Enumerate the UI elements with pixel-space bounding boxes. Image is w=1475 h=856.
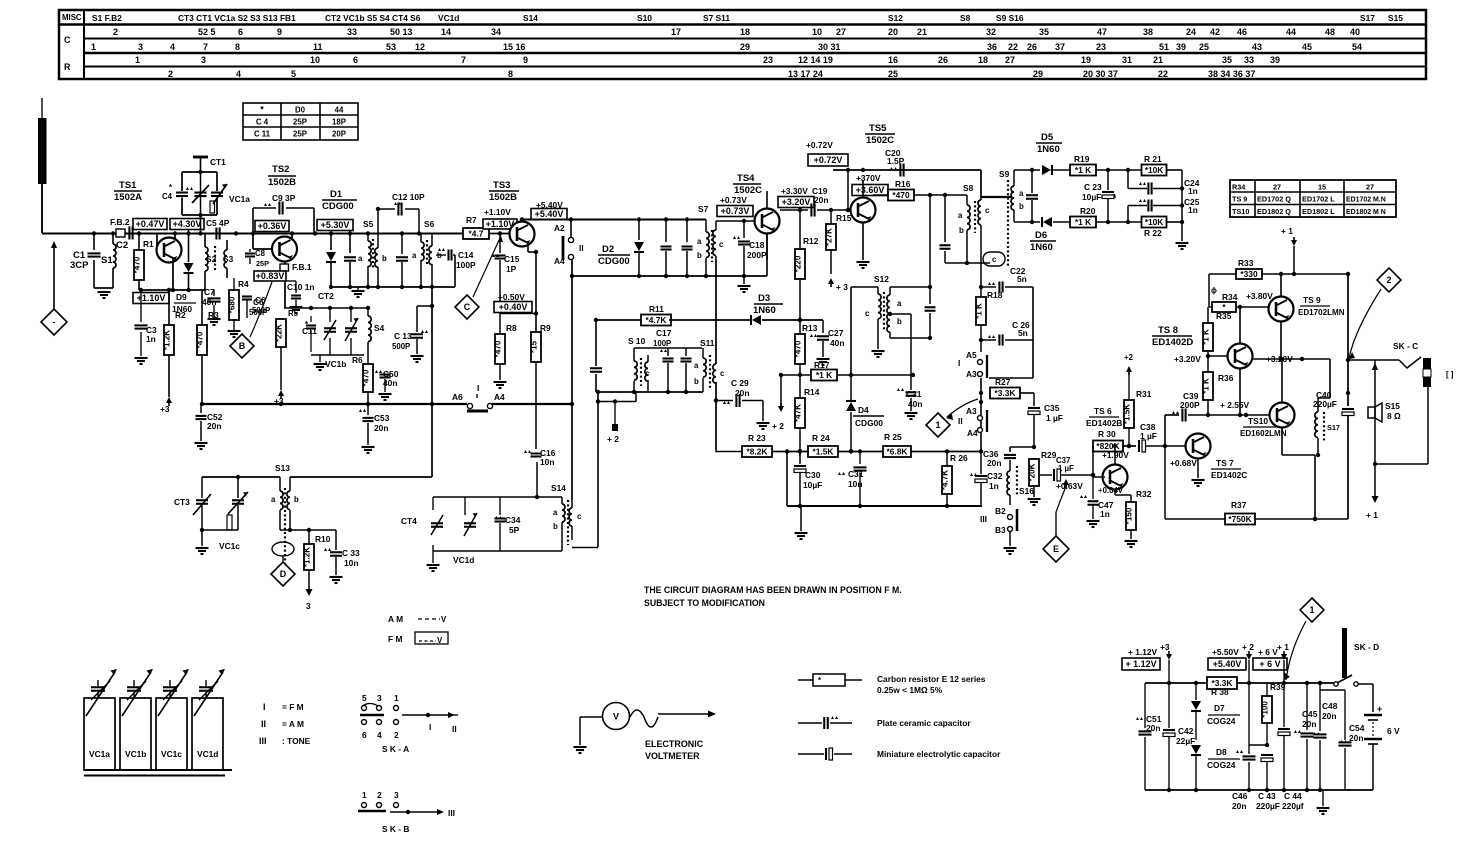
wire S13 top xyxy=(202,475,280,479)
svg-text:II: II xyxy=(958,416,963,426)
svg-text:+0.83V: +0.83V xyxy=(256,271,285,281)
capacitor C29 xyxy=(714,378,770,429)
voltage +3.20V left xyxy=(1174,354,1201,364)
rail TS5 top xyxy=(833,164,981,198)
svg-text:TS3: TS3 xyxy=(493,180,510,191)
svg-text:R31: R31 xyxy=(1136,389,1152,399)
svg-text:21: 21 xyxy=(1153,55,1163,65)
svg-text:+3: +3 xyxy=(274,396,284,406)
wire S7 secondary xyxy=(716,219,762,223)
svg-text:*1 K: *1 K xyxy=(1202,329,1211,345)
svg-text:20n: 20n xyxy=(987,458,1001,468)
capacitor C36 xyxy=(983,447,1034,468)
svg-text:C 23: C 23 xyxy=(1084,182,1102,192)
wire rail TS3 xyxy=(520,217,524,221)
svg-text:47: 47 xyxy=(1097,27,1107,37)
svg-text:35: 35 xyxy=(1039,27,1049,37)
svg-text:23: 23 xyxy=(1096,42,1106,52)
wire branch C48 xyxy=(1320,689,1344,691)
svg-text:R 24: R 24 xyxy=(812,433,830,443)
svg-text:TS10: TS10 xyxy=(1232,207,1249,216)
svg-text:A4: A4 xyxy=(494,392,505,402)
wire TS1 emitter bus xyxy=(139,288,205,292)
svg-text:= A M: = A M xyxy=(282,719,304,729)
switch SK-D xyxy=(1334,628,1379,686)
svg-text:b: b xyxy=(959,226,964,235)
svg-text:+0.04V: +0.04V xyxy=(1098,486,1124,495)
svg-text:R 30: R 30 xyxy=(1098,429,1116,439)
switch SK-C xyxy=(1348,341,1421,368)
diamond D xyxy=(271,562,295,586)
transformer S6 xyxy=(412,219,442,287)
svg-text:C10 1n: C10 1n xyxy=(287,282,314,292)
svg-text:12: 12 xyxy=(415,42,425,52)
voltage +6V xyxy=(1253,647,1287,670)
svg-text:S9: S9 xyxy=(999,169,1010,179)
svg-text:8 Ω: 8 Ω xyxy=(1387,411,1401,421)
svg-text:21: 21 xyxy=(917,27,927,37)
antenna xyxy=(38,98,47,233)
svg-text:+2: +2 xyxy=(1124,353,1134,362)
svg-text:*220: *220 xyxy=(794,255,803,272)
legend switch positions xyxy=(259,702,311,746)
diode D6 xyxy=(1014,217,1070,227)
svg-text:II: II xyxy=(452,724,457,734)
svg-text:S8: S8 xyxy=(960,13,971,23)
wire TS6 R32 xyxy=(1127,444,1131,448)
voltage +2.55V xyxy=(1220,400,1250,417)
svg-text:*750K: *750K xyxy=(1228,514,1251,524)
svg-text:II: II xyxy=(261,719,266,729)
svg-text:+ 1: + 1 xyxy=(1277,642,1289,652)
svg-text:20n: 20n xyxy=(374,423,388,433)
svg-text:a: a xyxy=(412,251,417,260)
transistor TS4 xyxy=(755,191,780,260)
capacitor C8 xyxy=(245,249,269,268)
resistor R21 xyxy=(1142,154,1183,186)
resistor R11 xyxy=(594,304,671,326)
svg-text:*3.3K: *3.3K xyxy=(995,388,1016,398)
svg-text:I: I xyxy=(958,358,960,368)
svg-text:*1 K: *1 K xyxy=(1202,378,1211,394)
svg-text:7: 7 xyxy=(461,55,466,65)
svg-text:D6: D6 xyxy=(1035,230,1047,241)
svg-text:+ 6 V: + 6 V xyxy=(1259,659,1280,669)
diamond B xyxy=(230,282,272,358)
svg-text:*27K: *27K xyxy=(825,228,834,246)
capacitor C54 xyxy=(1336,683,1365,743)
variable capacitor VC1a xyxy=(210,184,250,213)
svg-text:A M: A M xyxy=(388,614,403,624)
wire A4 down xyxy=(570,260,574,500)
svg-text:25P: 25P xyxy=(293,130,307,139)
svg-text:*470: *470 xyxy=(196,331,205,348)
wire TS7 base up xyxy=(1165,415,1179,446)
svg-text:+3: +3 xyxy=(160,404,170,414)
svg-text:VC1c: VC1c xyxy=(161,749,182,759)
svg-text:33: 33 xyxy=(347,27,357,37)
wire S11 c down xyxy=(716,259,745,452)
table text xyxy=(62,13,1403,79)
svg-text:D2: D2 xyxy=(602,244,614,255)
svg-text:I: I xyxy=(477,383,479,393)
svg-text:VC1d: VC1d xyxy=(438,13,459,23)
resistor R15b xyxy=(0,0,1,1)
svg-text:R16: R16 xyxy=(895,179,911,189)
svg-text:+0.36V: +0.36V xyxy=(258,221,287,231)
svg-text:9: 9 xyxy=(523,55,528,65)
svg-text:TS10: TS10 xyxy=(1248,416,1268,426)
capacitor C27 xyxy=(810,328,844,365)
resistor R38 xyxy=(1207,677,1237,697)
svg-text:C 29: C 29 xyxy=(731,378,749,388)
svg-text:+3: +3 xyxy=(1160,642,1170,652)
switch A2 A4 xyxy=(554,220,584,267)
svg-text:A4: A4 xyxy=(554,256,565,266)
svg-text:CDG00: CDG00 xyxy=(322,201,354,212)
point +1 power xyxy=(1277,642,1289,683)
svg-text:A4: A4 xyxy=(967,428,978,438)
svg-text:c: c xyxy=(865,309,870,318)
svg-text:+3.80V: +3.80V xyxy=(1246,291,1273,301)
svg-text:+370V: +370V xyxy=(856,173,881,183)
variable cap VC1d xyxy=(453,497,477,565)
capacitor C20 xyxy=(885,148,905,170)
svg-text:29: 29 xyxy=(740,42,750,52)
svg-text:10µF: 10µF xyxy=(803,480,822,490)
svg-text:I: I xyxy=(429,722,431,732)
svg-text:C 13: C 13 xyxy=(394,331,412,341)
svg-text:A3: A3 xyxy=(966,369,977,379)
svg-text:*8.2K: *8.2K xyxy=(747,447,768,457)
transformer S12 xyxy=(851,287,902,375)
svg-text:E: E xyxy=(1053,544,1059,554)
connector diamond minus xyxy=(41,309,67,335)
transformer S8 xyxy=(958,183,1011,263)
ground below C1 S1 xyxy=(94,288,113,298)
svg-text:ED1402D: ED1402D xyxy=(1152,337,1193,348)
svg-text:40n: 40n xyxy=(830,338,844,348)
svg-text:c: c xyxy=(720,369,725,378)
svg-text:26: 26 xyxy=(938,55,948,65)
svg-text:R27: R27 xyxy=(995,377,1011,387)
svg-text:+0.72V: +0.72V xyxy=(814,155,843,165)
transistor TS10 xyxy=(1270,359,1316,519)
svg-text:+3.60V: +3.60V xyxy=(856,185,885,195)
svg-text:a: a xyxy=(897,299,902,308)
resistor R19 xyxy=(1070,154,1142,176)
svg-text:+1.10V: +1.10V xyxy=(484,207,511,217)
svg-text:+ 2: + 2 xyxy=(772,421,784,431)
long vertical to S13 xyxy=(431,287,433,477)
svg-text:VC1d: VC1d xyxy=(453,555,474,565)
svg-text:2: 2 xyxy=(1387,275,1392,285)
S8 wiring xyxy=(940,195,1006,266)
svg-text:VC1b: VC1b xyxy=(125,749,146,759)
svg-text:D: D xyxy=(280,569,287,579)
svg-text:VC1a: VC1a xyxy=(89,749,110,759)
svg-text:5n: 5n xyxy=(1018,328,1028,338)
svg-text:*470: *470 xyxy=(892,190,910,200)
svg-text:1.5P: 1.5P xyxy=(887,156,905,166)
resistor R5 xyxy=(275,309,299,390)
svg-text:c: c xyxy=(985,206,990,215)
svg-text:*10K: *10K xyxy=(1145,165,1164,175)
svg-text:20 30 37: 20 30 37 xyxy=(1083,69,1118,79)
svg-text:1502C: 1502C xyxy=(866,135,894,146)
svg-text:C32: C32 xyxy=(987,471,1003,481)
svg-text:12 14 19: 12 14 19 xyxy=(798,55,833,65)
capacitor C35 xyxy=(1028,403,1063,449)
resistor R32 xyxy=(1125,489,1152,547)
svg-text:500P: 500P xyxy=(392,342,410,351)
svg-text:F.B.1: F.B.1 xyxy=(292,262,312,272)
svg-text:+ 6 V: + 6 V xyxy=(1258,647,1278,657)
transistor TS5 xyxy=(851,180,876,268)
S14 block top wire xyxy=(535,462,539,499)
diode D5 xyxy=(1014,165,1070,175)
svg-text:31: 31 xyxy=(1122,55,1132,65)
svg-text:25P: 25P xyxy=(256,259,269,268)
svg-text:S12: S12 xyxy=(874,274,889,284)
svg-text:R2: R2 xyxy=(175,310,186,320)
svg-text:c: c xyxy=(577,512,582,521)
resistor R26 xyxy=(941,451,969,506)
voltage label +5.30V xyxy=(317,220,353,231)
tuning gang VC1a-VC1d xyxy=(84,669,232,776)
capacitor C9 xyxy=(253,193,314,234)
capacitor C15 xyxy=(492,231,520,313)
svg-text:220µF: 220µF xyxy=(1256,801,1280,811)
resistor R29 xyxy=(1028,450,1057,505)
svg-text:C46: C46 xyxy=(1232,791,1248,801)
svg-text:+ 1.12V: + 1.12V xyxy=(1128,647,1158,657)
svg-text:a: a xyxy=(553,508,558,517)
dotted shield S9 xyxy=(999,169,1010,268)
svg-text:C18: C18 xyxy=(749,240,765,250)
svg-text:*: * xyxy=(260,105,264,115)
svg-text:+0.50V: +0.50V xyxy=(498,292,525,302)
svg-text:+0.68V: +0.68V xyxy=(1170,458,1197,468)
resistor R17 xyxy=(772,360,915,431)
svg-text:+ 2: + 2 xyxy=(1242,642,1254,652)
cap S9 xyxy=(1026,168,1038,224)
svg-text:54: 54 xyxy=(1352,42,1362,52)
svg-text:10n: 10n xyxy=(540,457,554,467)
svg-text:3: 3 xyxy=(377,693,382,703)
capacitor C23 xyxy=(1082,170,1117,222)
vertical line x930 xyxy=(928,336,932,340)
svg-text:+5.40V: +5.40V xyxy=(535,209,564,219)
bus R23 R24 xyxy=(798,449,802,453)
svg-text:5: 5 xyxy=(291,69,296,79)
svg-text:+3.20V: +3.20V xyxy=(782,197,811,207)
switch A6 A4 xyxy=(452,383,505,411)
svg-text:+ 2: + 2 xyxy=(607,434,619,444)
svg-text:5P: 5P xyxy=(509,525,520,535)
svg-text:CT3 CT1 VC1a S2 S3 S13 FB1: CT3 CT1 VC1a S2 S3 S13 FB1 xyxy=(178,13,296,23)
svg-text:*4.7: *4.7 xyxy=(469,229,484,239)
resistor R10 xyxy=(303,530,331,611)
speaker wires xyxy=(1366,360,1428,520)
resistor R6 xyxy=(352,355,373,404)
svg-text:+: + xyxy=(1377,704,1382,714)
transistor TS9 label xyxy=(1298,295,1345,317)
svg-text:ϕ: ϕ xyxy=(1211,286,1217,295)
svg-text:43: 43 xyxy=(1252,42,1262,52)
svg-text:*6.8K: *6.8K xyxy=(887,447,908,457)
svg-text:CT2 VC1b S5 S4 CT4 S6: CT2 VC1b S5 S4 CT4 S6 xyxy=(325,13,421,23)
point +3 below R5 xyxy=(274,390,284,406)
trimmer capacitor value table xyxy=(243,103,358,140)
svg-text:20n: 20n xyxy=(814,195,828,205)
ground bus left xyxy=(200,402,574,406)
svg-text:*330: *330 xyxy=(1240,269,1258,279)
svg-text:1P: 1P xyxy=(506,264,517,274)
svg-text:*20K: *20K xyxy=(1028,463,1037,481)
svg-text:ED1702 M.N: ED1702 M.N xyxy=(1346,197,1386,204)
svg-text:0.25w < 1MΩ 5%: 0.25w < 1MΩ 5% xyxy=(877,685,943,695)
svg-text:VC1b: VC1b xyxy=(325,359,346,369)
svg-text:45: 45 xyxy=(1302,42,1312,52)
svg-text:R 22: R 22 xyxy=(1144,228,1162,238)
resistor R23 xyxy=(742,433,809,457)
svg-text:1: 1 xyxy=(936,420,941,430)
svg-text:3: 3 xyxy=(394,790,399,800)
note subject xyxy=(644,598,765,608)
transistor TS10 label xyxy=(1240,416,1287,438)
transistor TS7 label xyxy=(1211,458,1247,480)
svg-text:20n: 20n xyxy=(207,421,221,431)
svg-text:20: 20 xyxy=(888,27,898,37)
svg-text:24: 24 xyxy=(1186,27,1196,37)
svg-text:ED1802 M N: ED1802 M N xyxy=(1346,209,1386,216)
svg-text:4: 4 xyxy=(377,730,382,740)
svg-text:8: 8 xyxy=(235,42,240,52)
svg-text:18: 18 xyxy=(978,55,988,65)
point +3 R15 xyxy=(828,278,848,292)
wire antenna to C1 xyxy=(42,231,463,235)
svg-text:6 V: 6 V xyxy=(1387,726,1400,736)
svg-text:+ 2.55V: + 2.55V xyxy=(1220,400,1250,410)
svg-text:TS 8: TS 8 xyxy=(1158,325,1178,336)
diode D1 label xyxy=(322,189,357,212)
svg-text:46: 46 xyxy=(1237,27,1247,37)
svg-text:R4: R4 xyxy=(238,279,249,289)
svg-text:R12: R12 xyxy=(803,236,819,246)
svg-text:44: 44 xyxy=(335,106,344,115)
point +1 top xyxy=(1281,226,1297,274)
svg-text:Carbon resistor E 12 series: Carbon resistor E 12 series xyxy=(877,674,986,684)
svg-text:1n: 1n xyxy=(146,334,156,344)
transistor TS5 label xyxy=(865,123,895,146)
legend AM xyxy=(388,614,447,624)
svg-text:+5.50V: +5.50V xyxy=(1212,647,1239,657)
svg-text:*1 K: *1 K xyxy=(1075,217,1091,227)
svg-text:1 µF: 1 µF xyxy=(1046,413,1063,423)
svg-text:R32: R32 xyxy=(1136,489,1152,499)
capacitor C10 xyxy=(284,281,314,313)
voltage label +4.30V xyxy=(170,219,204,230)
svg-text:+ 1.12V: + 1.12V xyxy=(1125,659,1156,669)
voltage +0.04V xyxy=(1098,486,1124,495)
transformer S12 label xyxy=(874,274,889,284)
svg-text:220µF: 220µF xyxy=(1313,399,1337,409)
svg-text:V: V xyxy=(437,636,443,645)
speaker S15 xyxy=(1368,401,1401,422)
svg-text:R 25: R 25 xyxy=(884,432,902,442)
resistor R34 xyxy=(1209,286,1269,312)
capacitor C26 xyxy=(979,320,1033,346)
svg-text:a: a xyxy=(694,361,699,370)
svg-text:S K - A: S K - A xyxy=(382,744,409,754)
svg-text:S16: S16 xyxy=(1019,486,1034,496)
svg-text:TS5: TS5 xyxy=(869,123,887,134)
svg-text:S10: S10 xyxy=(637,13,652,23)
svg-text:C21: C21 xyxy=(906,389,922,399)
capacitor C43 xyxy=(1256,745,1280,811)
svg-text:B2: B2 xyxy=(995,506,1006,516)
svg-text:S8: S8 xyxy=(963,183,974,193)
capacitor C21 xyxy=(897,375,922,419)
svg-text:R15: R15 xyxy=(836,213,852,223)
svg-text:*470: *470 xyxy=(362,369,371,386)
svg-text:S 10: S 10 xyxy=(628,336,646,346)
svg-text:39: 39 xyxy=(1176,42,1186,52)
diamond numbered 1 xyxy=(926,399,978,437)
switch A3 A4 lower xyxy=(958,406,987,438)
wire rail right down xyxy=(1346,272,1350,276)
svg-text:4: 4 xyxy=(236,69,241,79)
capacitor C32 xyxy=(970,452,1003,506)
resistor R12 xyxy=(794,208,819,322)
svg-text:R33: R33 xyxy=(1238,258,1254,268)
svg-text:3: 3 xyxy=(201,55,206,65)
svg-text:R13: R13 xyxy=(802,323,818,333)
ground bus mid xyxy=(785,449,982,539)
svg-text:36: 36 xyxy=(987,42,997,52)
resistor R7 xyxy=(463,215,509,239)
svg-text:R6: R6 xyxy=(352,355,363,365)
legend electrolytic xyxy=(798,748,1001,760)
capacitor C52 xyxy=(195,404,223,449)
svg-text:*1.2K: *1.2K xyxy=(303,547,312,567)
svg-text:38 34 36 37: 38 34 36 37 xyxy=(1208,69,1255,79)
svg-text:CT2: CT2 xyxy=(318,291,334,301)
svg-text:9: 9 xyxy=(277,27,282,37)
svg-text:F M: F M xyxy=(388,634,402,644)
svg-text:R34: R34 xyxy=(1222,292,1238,302)
svg-text:1502B: 1502B xyxy=(489,192,517,203)
svg-text:1N60: 1N60 xyxy=(1030,242,1053,253)
wire R39 C43 xyxy=(1249,743,1269,747)
capacitor C14 xyxy=(436,248,476,287)
svg-text:*680: *680 xyxy=(228,296,237,313)
capacitor C4 xyxy=(162,183,193,201)
svg-text:7: 7 xyxy=(203,42,208,52)
svg-text:b: b xyxy=(553,522,558,531)
svg-text:A2: A2 xyxy=(554,223,565,233)
wire TS10 junction xyxy=(1313,517,1317,521)
diamond numbered 2 xyxy=(1349,268,1401,359)
svg-text:VC1a: VC1a xyxy=(229,194,250,204)
svg-text:38: 38 xyxy=(1143,27,1153,37)
svg-text:27: 27 xyxy=(1005,55,1015,65)
svg-text:17: 17 xyxy=(671,27,681,37)
svg-text:23: 23 xyxy=(763,55,773,65)
svg-text:25P: 25P xyxy=(293,118,307,127)
svg-text:*150: *150 xyxy=(1125,507,1134,524)
